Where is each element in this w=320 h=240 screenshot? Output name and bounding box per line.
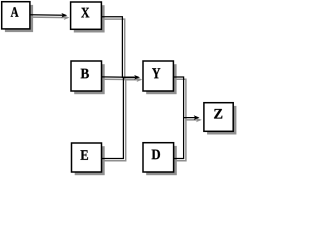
wire A-X <box>30 14 65 17</box>
box A <box>2 2 30 29</box>
shadow of box A <box>5 5 33 32</box>
shadow of wire B-Y <box>104 78 141 80</box>
label Z <box>214 109 222 118</box>
label X <box>81 8 89 18</box>
label Y <box>152 68 160 78</box>
shadow of wire A-X <box>32 16 67 19</box>
shadow of wire Y-Z <box>176 79 200 120</box>
shadow of wire E-Y <box>104 80 140 161</box>
label D <box>152 150 160 160</box>
arrowhead into X <box>61 13 67 18</box>
shadow of box X <box>74 5 105 32</box>
shadow of arrowhead into Z <box>196 118 202 123</box>
label A <box>11 7 19 17</box>
wire X-Y <box>101 17 135 77</box>
wire Y-Z <box>173 77 196 118</box>
shadow of arrowhead into Y <box>137 77 143 82</box>
shadow of box B <box>74 64 105 94</box>
shadow of wire D-Z <box>176 120 186 161</box>
shadow of box D <box>146 146 177 175</box>
shadow of box Z <box>207 106 236 135</box>
box X <box>71 2 102 29</box>
wire B-Y <box>102 76 138 78</box>
label E <box>81 150 88 159</box>
shadow of wire X-Y <box>104 19 141 79</box>
shadow of box E <box>75 146 105 175</box>
box Y <box>143 61 173 91</box>
box D <box>143 143 174 172</box>
wire D-Z <box>174 118 184 159</box>
box Z <box>204 103 233 132</box>
box E <box>72 143 102 172</box>
arrowhead into Z <box>194 115 200 120</box>
arrowhead into Y <box>134 75 140 80</box>
wire E-Y <box>102 78 136 159</box>
box B <box>71 61 102 91</box>
shadow of box Y <box>146 64 176 94</box>
label B <box>81 69 89 79</box>
shadow of arrowhead into X <box>64 15 70 20</box>
